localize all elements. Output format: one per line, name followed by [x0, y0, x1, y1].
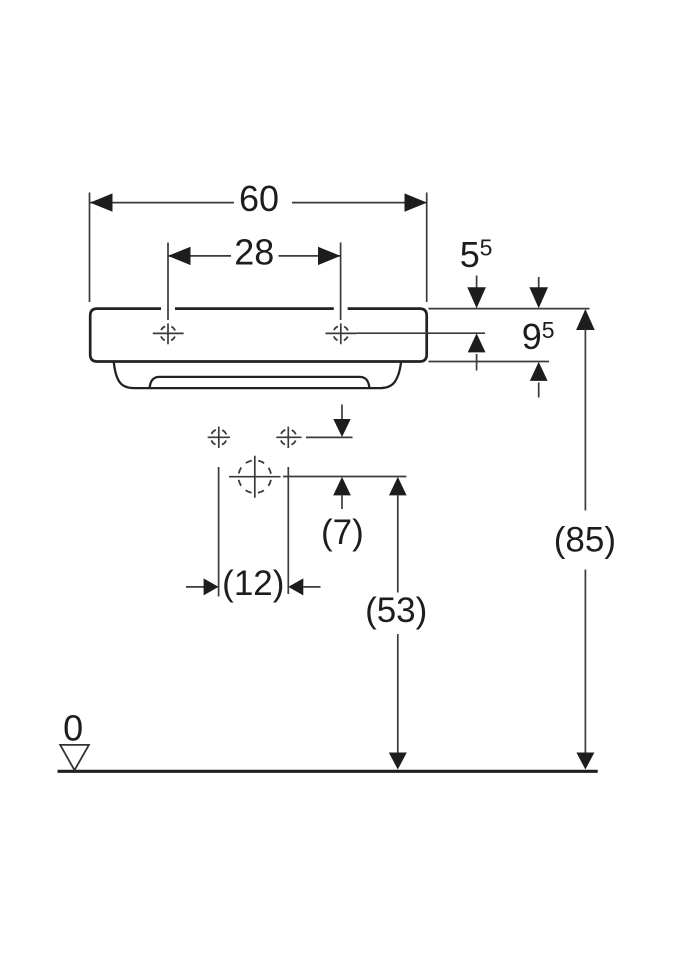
dimension (7) up arrowhead [333, 477, 351, 496]
wall fixing hole right: cross [276, 427, 301, 448]
svg-text:5: 5 [460, 234, 480, 275]
svg-text:9: 9 [522, 316, 542, 357]
floor line [58, 770, 598, 773]
fixing hole left: dashed circle [160, 326, 175, 341]
svg-text:(12): (12) [222, 564, 284, 603]
arrowhead 60 right [405, 193, 428, 211]
arrowhead 28 right [318, 247, 341, 265]
dimension (53) line lower [397, 634, 399, 754]
washbasin lower ledge line [150, 377, 370, 388]
dimension (12) left arrowhead [204, 578, 219, 595]
dimension 5.5 upper arrow tail [476, 276, 478, 288]
svg-text:(85): (85) [554, 521, 616, 560]
datum zero triangle [60, 745, 89, 770]
svg-text:5: 5 [480, 235, 493, 261]
dimension 9.5 text [522, 316, 555, 357]
dimension 9.5 down arrowhead [529, 287, 548, 308]
dimension 5.5 lower arrow tail [476, 354, 478, 371]
dimension (7) down arrowhead [333, 419, 350, 437]
svg-text:(53): (53) [365, 591, 427, 630]
arrowhead 28 left [168, 247, 191, 265]
dimension 5.5 text [460, 234, 493, 275]
wall fixing hole left: dashed circle [211, 429, 227, 445]
dimension (85) line upper [584, 329, 586, 511]
dimension (12) extension line left [218, 467, 220, 597]
drain outlet: cross [229, 456, 281, 498]
dimension (7) text [321, 513, 364, 552]
dimension (12) right arrowhead [288, 578, 303, 595]
datum zero text [63, 707, 83, 748]
washbasin skirt outline [114, 363, 401, 389]
dimension 28 line [168, 255, 341, 257]
arrowhead 60 left [90, 193, 113, 211]
extension line 60 right [426, 193, 428, 303]
fixing hole right: dashed circle [333, 326, 348, 341]
svg-text:0: 0 [63, 707, 83, 748]
dimension (12) right arrow tail [303, 586, 321, 588]
dimension 9.5 up arrowhead [530, 362, 548, 381]
svg-text:5: 5 [542, 317, 555, 343]
extension of basin top edge to right [429, 308, 590, 310]
dimension (53) up arrowhead [389, 477, 407, 496]
dimension 60 text [239, 178, 279, 219]
dimension 9.5 upper arrow tail [538, 277, 540, 289]
dimension 9.5 lower arrow tail [538, 383, 540, 398]
dimension (53) text [365, 591, 427, 630]
svg-text:60: 60 [239, 178, 279, 219]
svg-text:28: 28 [234, 232, 274, 273]
dimension (7) upper arrow tail [341, 405, 343, 420]
dimension 5.5 up arrowhead [468, 333, 486, 352]
dimension 5.5 down arrowhead [467, 287, 486, 308]
fixing hole right: cross [326, 323, 357, 344]
dimension (12) extension line right [287, 467, 289, 594]
extension line 28 right [340, 243, 342, 321]
dimension (85) down arrowhead [576, 753, 594, 770]
dimension (53) line upper [397, 495, 399, 593]
extension of basin bottom edge to right [429, 361, 550, 363]
dimension (85) text [554, 521, 616, 560]
drain level reference line [283, 476, 406, 478]
wall fixing hole left: cross [208, 427, 230, 448]
extension line 28 left [167, 243, 169, 321]
extension line 60 left [89, 193, 91, 303]
dimension (85) up arrowhead [576, 309, 595, 330]
dimension (12) left arrow tail [186, 586, 204, 588]
dimension (85) line lower [584, 570, 586, 754]
dimension (7) lower arrow tail [341, 495, 343, 510]
dimension 60 line [90, 202, 427, 204]
dimension 28 text [234, 232, 274, 273]
dimension (12) text [222, 564, 284, 603]
washbasin body outline [90, 309, 427, 362]
fixing hole level line [306, 436, 353, 438]
drain outlet: dashed circle [238, 460, 271, 493]
leader line from right fixing hole [356, 332, 485, 334]
svg-text:(7): (7) [321, 513, 364, 552]
wall fixing hole right: dashed circle [280, 429, 296, 445]
dimension (53) down arrowhead [389, 753, 407, 770]
fixing hole left: cross [153, 323, 184, 344]
